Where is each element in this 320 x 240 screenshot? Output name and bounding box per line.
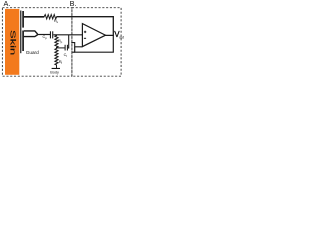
dashed box section A — [2, 8, 72, 77]
svg-text:Guard: Guard — [26, 50, 39, 55]
wire inverting input loop — [71, 43, 82, 47]
svg-text:B.: B. — [70, 0, 77, 8]
wire electrode1 to Rs — [24, 16, 44, 18]
resistor Rl (vertical zigzag) — [55, 48, 58, 65]
svg-text:Body: Body — [50, 70, 59, 74]
electrode 1 bar (top) — [22, 11, 24, 28]
resistor Rp (vertical zigzag) — [55, 35, 58, 48]
wire electrode2 upper fork — [24, 31, 38, 34]
svg-text:Skin: Skin — [8, 30, 15, 55]
op-amp minus input mark — [84, 37, 86, 39]
resistor Rs (zigzag) — [44, 15, 57, 19]
wire Cl to node J2 — [67, 35, 70, 48]
capacitor Cl (plates) — [65, 45, 66, 51]
wire feedback stub to divider — [72, 51, 74, 53]
svg-text:out: out — [119, 35, 124, 39]
wire electrode2 lower fork — [24, 35, 38, 37]
capacitor Cp (plates) — [50, 31, 51, 38]
ground symbol — [52, 68, 60, 69]
dashed box section B — [72, 8, 121, 77]
ground lead — [56, 66, 58, 69]
op-amp plus input mark — [84, 31, 86, 33]
electrode 2 bar (bottom) — [22, 31, 24, 52]
guard electrode bar — [20, 11, 21, 54]
wire Cp to op-amp input — [53, 34, 82, 36]
op-amp U1 (triangle) — [82, 24, 105, 47]
wire J3 to Cl — [56, 47, 65, 49]
wire feedback bottom rail — [75, 35, 114, 52]
wire Rs to output node (top feedback rail) — [56, 17, 113, 36]
wire fork to Cp — [37, 34, 50, 36]
svg-text:A.: A. — [4, 0, 11, 8]
skin block (orange) — [5, 9, 19, 75]
node J1 lead down — [56, 35, 58, 36]
